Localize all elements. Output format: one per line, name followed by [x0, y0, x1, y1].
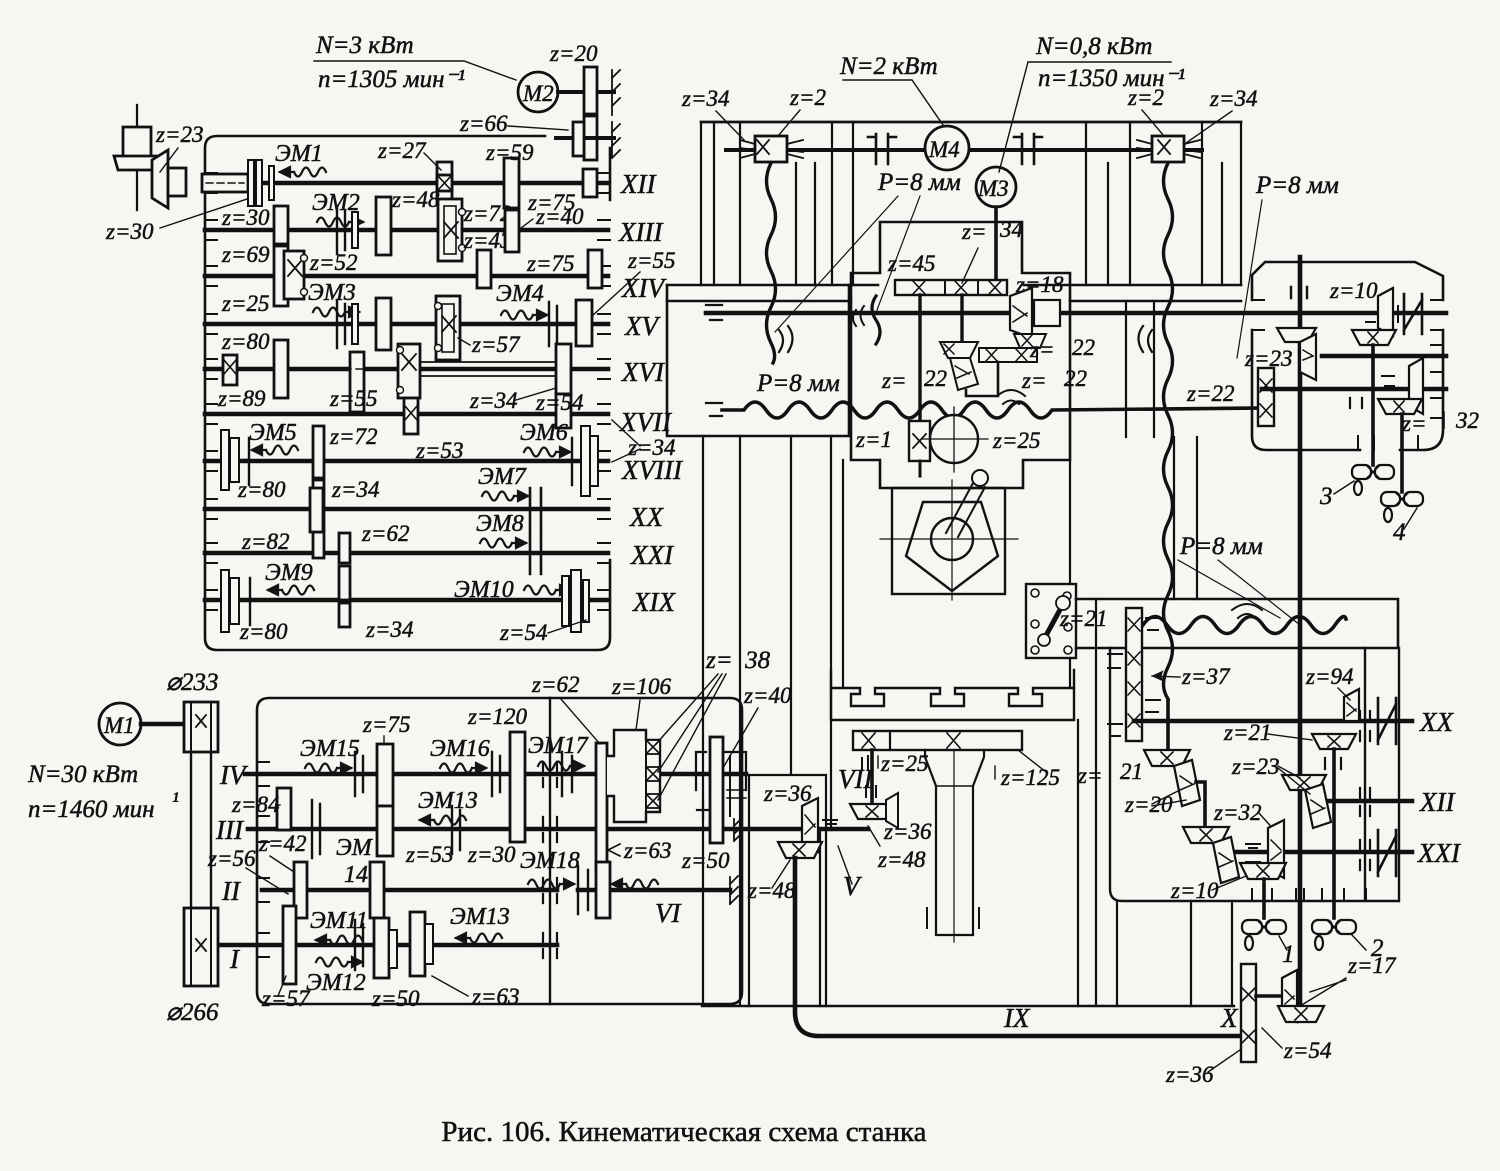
bowtie bevel 2 [1312, 920, 1356, 950]
svg-text:z=34: z=34 [681, 86, 729, 111]
svg-text:z=40: z=40 [743, 683, 792, 708]
gears on XVIII left [221, 430, 229, 490]
svg-text:ЭМ3: ЭМ3 [308, 280, 356, 306]
svg-text:z=36: z=36 [763, 781, 812, 806]
svg-text:z=10: z=10 [1329, 278, 1378, 303]
bevel z=21 right (on XX) [1312, 734, 1356, 749]
svg-text:n=1350 мин⁻¹: n=1350 мин⁻¹ [1038, 65, 1185, 92]
svg-text:z=94: z=94 [1305, 664, 1353, 689]
svg-text:N=0,8 кВт: N=0,8 кВт [1035, 33, 1152, 60]
bevel z=21/z=20 pair upper [1144, 750, 1190, 766]
gear column z=21 [1126, 608, 1142, 741]
svg-text:z=2: z=2 [789, 85, 826, 110]
svg-text:z=36: z=36 [883, 819, 932, 844]
svg-text:z=1: z=1 [855, 427, 892, 452]
clutch discs on XV [337, 300, 345, 348]
gear z=27 on XII [437, 162, 452, 204]
z=2 worm box right [1152, 136, 1184, 162]
svg-text:z=42: z=42 [258, 831, 306, 856]
coupling gear z=62 [596, 743, 607, 873]
vertical z=21 to bowtie 2 [1332, 749, 1336, 918]
svg-text:ЭМ4: ЭМ4 [496, 281, 544, 307]
svg-text:XIV: XIV [621, 273, 667, 303]
svg-text:z=34: z=34 [469, 388, 517, 413]
svg-text:22: 22 [1064, 366, 1087, 391]
lever [946, 483, 985, 537]
long vertical shaft [1298, 257, 1303, 1013]
svg-text:⌀233: ⌀233 [166, 669, 219, 696]
bevel z=10 with x [1240, 863, 1286, 879]
shaft XVI [205, 367, 608, 372]
svg-text:z=: z= [1077, 763, 1102, 788]
svg-text:z=: z= [1401, 411, 1426, 436]
svg-text:IV: IV [219, 760, 249, 790]
svg-text:XXI: XXI [1417, 838, 1462, 868]
gearbox housing outline [205, 136, 610, 650]
svg-text:z=55: z=55 [627, 248, 675, 273]
column frame top [701, 121, 1241, 124]
bevel z=17 pair [1282, 970, 1297, 1022]
svg-text:М3: М3 [977, 176, 1009, 201]
gear z=30 on XIII [274, 206, 288, 244]
elbow to lower bevel [1196, 782, 1205, 829]
svg-text:X: X [1220, 1003, 1239, 1033]
gear z=20 [584, 67, 597, 114]
svg-text:z=62: z=62 [531, 672, 579, 697]
bevel z=23 pair [1277, 328, 1316, 342]
saddle box [667, 285, 849, 436]
svg-text:XVI: XVI [621, 357, 666, 387]
gear z=48 on XIII [376, 197, 391, 255]
guideway band [667, 284, 1241, 287]
shaft XIII [205, 228, 608, 233]
z=2 worm box left [755, 136, 787, 162]
svg-text:z=56: z=56 [207, 846, 256, 871]
clutch arrow on VI [612, 879, 658, 889]
svg-text:z=48: z=48 [747, 878, 796, 903]
vertical to bevel 3 [1371, 345, 1375, 465]
svg-text:z=69: z=69 [221, 242, 270, 267]
shaft mid [1322, 354, 1446, 359]
svg-text:ЭМ8: ЭМ8 [476, 511, 524, 537]
svg-text:II: II [221, 876, 242, 906]
svg-text:ЭМ15: ЭМ15 [300, 736, 360, 762]
svg-text:ЭМ13: ЭМ13 [418, 788, 478, 814]
apron lead screw wavy [1143, 617, 1346, 634]
svg-text:z=50: z=50 [371, 986, 420, 1011]
connector to z=17 [1256, 994, 1282, 998]
small rack z=22 pair [1014, 334, 1046, 348]
svg-text:N=30 кВт: N=30 кВт [27, 761, 138, 788]
arcs near left screw end [779, 326, 793, 352]
left vertical screw (wavy) [767, 163, 776, 363]
coupling on XII [202, 174, 248, 192]
bevel z=23 pair (on XII) [1282, 775, 1326, 790]
svg-text:ЭМ6: ЭМ6 [520, 420, 568, 446]
svg-text:XII: XII [620, 169, 657, 199]
slip clutch on spindle [1404, 294, 1422, 334]
svg-text:z=75: z=75 [526, 251, 574, 276]
shaft IV [245, 772, 746, 777]
svg-text:z=45: z=45 [887, 251, 935, 276]
svg-text:z=36: z=36 [1165, 1062, 1214, 1087]
motor M1 [99, 703, 141, 745]
belt pulley 266 [184, 908, 218, 986]
svg-text:z=72: z=72 [329, 424, 377, 449]
bevel z=32 on XXI [1268, 820, 1284, 878]
shaft IX [795, 858, 1243, 1036]
svg-text:z=84: z=84 [231, 792, 279, 817]
table column [925, 750, 984, 935]
motor shaft M4 [726, 148, 1202, 152]
svg-text:z=80: z=80 [221, 329, 270, 354]
shaft II [262, 888, 557, 893]
svg-text:М1: М1 [103, 713, 135, 738]
svg-text:34: 34 [999, 217, 1023, 242]
svg-text:z=17: z=17 [1347, 953, 1397, 978]
gear block z=38/40 [710, 737, 723, 843]
gear rack z=45 [895, 280, 1007, 295]
column strips right [1086, 122, 1241, 285]
shaft XX [205, 507, 608, 512]
shaft XV [205, 322, 608, 327]
svg-text:z=54: z=54 [535, 390, 583, 415]
gear z=53 on III [422, 806, 423, 807]
column mid verticals [703, 436, 1070, 1006]
bottom bracket gaps [1358, 436, 1418, 450]
gear z=57 on I [283, 906, 296, 984]
hump arcs on screw [997, 390, 1025, 404]
svg-text:XX: XX [1419, 707, 1454, 737]
clutch EM14 discs [312, 800, 320, 858]
svg-text:ЭМ11: ЭМ11 [310, 908, 368, 934]
svg-text:z=80: z=80 [239, 619, 288, 644]
svg-text:z=53: z=53 [415, 438, 463, 463]
shaft XII [248, 181, 608, 186]
motor M3 [976, 167, 1016, 207]
svg-text:z=21: z=21 [1223, 720, 1271, 745]
V shaft marks [823, 820, 837, 824]
svg-text:ЭМ5: ЭМ5 [249, 420, 297, 446]
gear z=63 on VI [596, 862, 610, 918]
svg-text:z=52: z=52 [309, 250, 357, 275]
clutch discs on XII [248, 160, 254, 206]
svg-text:z=30: z=30 [105, 219, 154, 244]
gear on XIV right [588, 250, 602, 288]
slider block z=52 on XIV [284, 251, 304, 299]
vertical to bowtie 1 [1262, 879, 1266, 918]
gear z=62 on XXI [339, 533, 350, 563]
gear z=54 on XVI right [556, 344, 571, 394]
vertical to bevel cluster [960, 295, 963, 342]
gear z=55 on XVI [350, 352, 364, 412]
gear z=75 on XIV [477, 250, 491, 288]
svg-text:n=1460 мин: n=1460 мин [28, 796, 154, 823]
gear z=84 on III [277, 788, 291, 830]
gear z=66 [556, 136, 614, 140]
svg-text:N=3 кВт: N=3 кВт [315, 32, 414, 59]
motor M4 [925, 126, 969, 170]
gear z=36 bottom [1241, 964, 1256, 1062]
gear cluster II mid [370, 862, 384, 918]
svg-text:z=80: z=80 [237, 477, 286, 502]
bowtie bevel 3 [1352, 465, 1394, 495]
plate with holes [1026, 584, 1076, 658]
svg-text:z=57: z=57 [261, 986, 311, 1011]
vertical feed screw lower end [1166, 701, 1170, 750]
svg-text:z=63: z=63 [623, 838, 671, 863]
svg-text:z=37: z=37 [1181, 664, 1231, 689]
bowtie bevel 4 [1381, 492, 1423, 522]
svg-text:z=62: z=62 [361, 521, 409, 546]
svg-text:ЭМ9: ЭМ9 [265, 560, 313, 586]
gear z=120 [510, 732, 525, 842]
svg-text:32: 32 [1455, 408, 1479, 433]
svg-text:z=53: z=53 [405, 842, 453, 867]
svg-text:ЭМ18: ЭМ18 [520, 848, 580, 874]
svg-text:III: III [215, 815, 245, 845]
svg-text:z=48: z=48 [391, 187, 440, 212]
svg-text:14: 14 [344, 862, 368, 888]
svg-text:z=34: z=34 [1209, 86, 1257, 111]
table rack z=25 / z=125 [853, 731, 1022, 750]
gear z=59 on XII [504, 158, 519, 208]
gear on III mid [377, 806, 393, 856]
shaft III / V [248, 827, 868, 832]
svg-text:XXI: XXI [630, 540, 675, 570]
vertical from rack to worm [918, 295, 921, 420]
svg-text:z=48: z=48 [877, 847, 926, 872]
svg-text:IX: IX [1003, 1003, 1031, 1033]
gear z=80 on XVI [223, 355, 237, 385]
svg-text:z=: z= [961, 219, 986, 244]
shaft I [220, 943, 557, 948]
slider on XV [436, 296, 460, 360]
gear block z=72 z=43 on XIII [438, 199, 462, 261]
right vertical screw (wavy) [1164, 163, 1173, 699]
svg-text:z=25: z=25 [221, 291, 269, 316]
stepped coupling z=106 [607, 730, 660, 822]
svg-text:3: 3 [1319, 483, 1333, 510]
svg-text:z=63: z=63 [471, 984, 519, 1009]
svg-text:⌀266: ⌀266 [166, 999, 219, 1026]
shaft XXI [205, 551, 608, 556]
bowtie bevel 1 [1242, 920, 1286, 950]
bearing ticks left edge [205, 173, 610, 610]
svg-text:VI: VI [655, 898, 682, 928]
svg-text:z=120: z=120 [467, 704, 527, 729]
svg-text:XVII: XVII [619, 407, 673, 437]
svg-text:z=22: z=22 [1186, 381, 1234, 406]
svg-text:ЭМ16: ЭМ16 [430, 736, 490, 762]
svg-text:ЭМ10: ЭМ10 [454, 577, 514, 603]
svg-text:22: 22 [1072, 335, 1095, 360]
svg-text:z=20: z=20 [1124, 792, 1173, 817]
svg-text:z=25: z=25 [992, 428, 1040, 453]
bevel pair under vertical [940, 342, 978, 358]
shaft XXI right [1219, 850, 1412, 855]
gear z=75 on XII [583, 169, 597, 197]
bevel pair to IX [802, 798, 818, 852]
svg-text:n=1305 мин⁻¹: n=1305 мин⁻¹ [318, 66, 465, 93]
T-slot table section [831, 688, 1074, 706]
svg-text:z=34: z=34 [627, 435, 675, 460]
arcs near right screw [1139, 326, 1153, 352]
hump arcs [1232, 604, 1262, 618]
svg-text:P=8 мм: P=8 мм [1255, 172, 1339, 199]
motor M2 [518, 72, 558, 112]
belt pulley 233 [184, 702, 218, 752]
shaft B [1262, 387, 1446, 392]
bevel z=36/z=48 under VII [850, 804, 894, 819]
bevel z=18 cluster [1010, 288, 1032, 338]
svg-text:z=20: z=20 [549, 41, 598, 66]
bottom gaps [1252, 889, 1366, 901]
svg-text:z=54: z=54 [1283, 1038, 1331, 1063]
gear z=40 on XIII [505, 210, 519, 252]
bevel z=20 lower [1183, 827, 1229, 843]
bevel z=32 [1409, 358, 1423, 414]
svg-text:XII: XII [1419, 787, 1456, 817]
svg-text:XX: XX [629, 502, 664, 532]
gear z=69 pair XIII-XIV [274, 246, 288, 306]
belt [191, 752, 211, 908]
svg-text:z=30: z=30 [221, 205, 270, 230]
slip clutch on XX [1378, 698, 1396, 744]
shaft XVII [205, 412, 608, 417]
svg-text:P=8 мм: P=8 мм [877, 169, 961, 196]
svg-text:ЭМ12: ЭМ12 [306, 970, 366, 996]
gear z=42 on II [294, 862, 307, 918]
svg-text:z=89: z=89 [217, 386, 266, 411]
svg-text:z=40: z=40 [535, 204, 584, 229]
shaft VI [578, 888, 730, 893]
svg-text:XIX: XIX [632, 587, 676, 617]
gear on XX [310, 488, 323, 532]
coupling on motor shaft left [868, 134, 896, 164]
svg-text:ЭМ17: ЭМ17 [528, 733, 589, 759]
gear z=75 on IV [377, 744, 393, 806]
slip clutch on XXI [1378, 830, 1396, 876]
svg-text:z=18: z=18 [1015, 272, 1064, 297]
column strips left [701, 122, 853, 285]
svg-text:z=25: z=25 [880, 751, 928, 776]
svg-text:М2: М2 [522, 81, 554, 106]
shaft XVIII [205, 459, 608, 464]
gear z=50 on I [374, 918, 389, 978]
svg-text:z=21: z=21 [1059, 606, 1107, 631]
svg-text:22: 22 [924, 366, 947, 391]
svg-text:z=106: z=106 [611, 674, 671, 699]
shaft VII vertical [870, 750, 874, 806]
svg-text:z=34: z=34 [365, 617, 413, 642]
svg-text:N=2 кВт: N=2 кВт [839, 53, 938, 80]
slider on XVI [398, 344, 420, 398]
svg-text:z=50: z=50 [681, 848, 730, 873]
base bottom [702, 1005, 1234, 1007]
svg-text:P=8 мм: P=8 мм [756, 370, 840, 397]
shaft XIV [205, 274, 608, 279]
svg-text:z=59: z=59 [485, 140, 534, 165]
vertical to bevel 4 [1400, 414, 1404, 492]
lower lead screw wavy [706, 403, 722, 416]
shaft XII right [1317, 799, 1412, 804]
bevel z=10 [1378, 288, 1393, 336]
feedbox outline [1110, 648, 1399, 901]
svg-text:Рис. 106. Кинематическая схема: Рис. 106. Кинематическая схема станка [441, 1116, 926, 1148]
svg-text:VII: VII [838, 764, 874, 794]
svg-text:ЭМ: ЭМ [336, 835, 374, 861]
svg-text:¹: ¹ [172, 788, 179, 813]
svg-text:z=54: z=54 [499, 620, 547, 645]
input bevel z=23 [136, 105, 138, 210]
svg-text:М4: М4 [928, 137, 960, 162]
svg-text:P=8 мм: P=8 мм [1179, 533, 1263, 560]
hollow shaft XVI dashed [296, 368, 560, 370]
svg-text:z=: z= [1029, 337, 1054, 362]
svg-text:z=75: z=75 [362, 712, 410, 737]
svg-text:z=57: z=57 [471, 332, 521, 357]
svg-text:XIII: XIII [618, 217, 664, 247]
svg-text:z=23: z=23 [155, 122, 203, 147]
ticks [1350, 398, 1362, 408]
bevel z=94 [1344, 689, 1359, 721]
shaft A (cross shaft) [706, 311, 1446, 316]
wall hatch right of z20 [612, 70, 620, 115]
svg-text:z=: z= [881, 368, 906, 393]
gearbox housing [257, 698, 742, 1004]
svg-text:z=82: z=82 [241, 529, 289, 554]
headstock outline [851, 222, 1070, 488]
svg-text:z=: z= [1021, 368, 1046, 393]
short wavy by rack [872, 296, 880, 344]
svg-text:z=30: z=30 [467, 842, 516, 867]
base verticals right [1117, 901, 1232, 1006]
svg-text:z=66: z=66 [459, 111, 508, 136]
svg-text:21: 21 [1120, 759, 1143, 784]
svg-text:z=27: z=27 [377, 138, 427, 163]
pentagon handle box [892, 488, 1005, 594]
svg-text:ЭМ13: ЭМ13 [450, 904, 510, 930]
shaft XIX [205, 598, 608, 603]
gear column z=22 [1258, 368, 1274, 426]
coupling on motor shaft right [1014, 134, 1042, 164]
svg-text:z=23: z=23 [1231, 754, 1279, 779]
apron band [1076, 599, 1398, 648]
gear z=55(XV right) [576, 300, 592, 346]
svg-text:z= 38: z= 38 [705, 647, 771, 674]
gear z=63 on I [410, 912, 425, 976]
bearing ticks [257, 762, 269, 957]
svg-text:4: 4 [1393, 519, 1406, 546]
svg-text:ЭМ1: ЭМ1 [275, 141, 323, 167]
worm wheel z=25 [930, 415, 978, 463]
wall bearings [543, 762, 557, 958]
internal wall [549, 698, 551, 1004]
shaft XX [1134, 719, 1412, 724]
worm z=1 [909, 421, 930, 461]
svg-text:XV: XV [624, 311, 661, 341]
svg-text:z=34: z=34 [331, 477, 379, 502]
marks on XII [1360, 788, 1370, 816]
svg-text:z=32: z=32 [1213, 800, 1261, 825]
gear pair on XVI x281 [274, 340, 288, 398]
svg-text:ЭМ7: ЭМ7 [478, 464, 527, 490]
svg-text:z=125: z=125 [1000, 765, 1060, 790]
svg-text:z=55: z=55 [329, 386, 377, 411]
head outline [1252, 262, 1443, 450]
